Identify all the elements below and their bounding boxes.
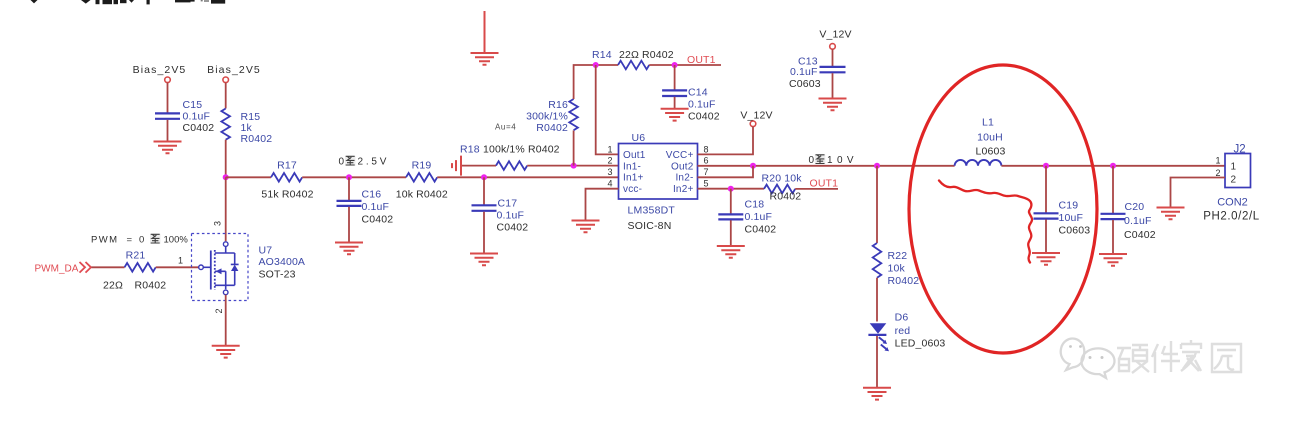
node 0-2.5V label (339, 156, 387, 168)
wire C18 to ground (730, 220, 732, 245)
wire bus to R22 (876, 166, 878, 243)
capacitor C20 (1101, 201, 1156, 241)
junction pin1 branch (593, 62, 599, 68)
svg-text:300k/1%: 300k/1% (526, 111, 568, 123)
wire gnd to R18 (462, 165, 496, 167)
svg-text:L1: L1 (982, 117, 994, 129)
ground J2 pin2 (1157, 208, 1185, 220)
wire node A to R17 (226, 176, 271, 178)
svg-text:1: 1 (1215, 156, 1220, 166)
svg-text:8: 8 (704, 144, 709, 154)
svg-text:C14: C14 (688, 87, 708, 99)
svg-text:C0402: C0402 (1124, 229, 1156, 241)
wire C17 node down (483, 177, 485, 204)
svg-text:2: 2 (1215, 168, 1220, 178)
svg-text:C19: C19 (1059, 200, 1079, 212)
svg-text:1: 1 (607, 144, 612, 154)
svg-text:7: 7 (704, 167, 709, 177)
wire R21 to U7 gate (156, 266, 199, 268)
capacitor C14 (662, 87, 720, 123)
resistor R16 (526, 99, 578, 134)
wire R20 to OUT1 (795, 188, 838, 190)
transistor U7 (AO3400A) (192, 234, 306, 301)
LED D6 (868, 312, 945, 352)
wire R22 to D6 (876, 278, 878, 322)
junction C17 node (481, 174, 487, 180)
ground under C14 (661, 109, 689, 121)
wire pin1 branch (596, 65, 619, 154)
svg-text:C16: C16 (362, 189, 382, 201)
svg-text:U7: U7 (259, 245, 273, 257)
wire L1 to J2 (1001, 165, 1225, 167)
ground under C13 (819, 99, 847, 111)
svg-text:R19: R19 (412, 160, 432, 172)
svg-text:R0402: R0402 (536, 122, 568, 134)
resistor R21 (103, 250, 166, 292)
svg-text:2 . 5 V: 2 . 5 V (358, 157, 387, 168)
capacitor C18 (718, 199, 776, 236)
wire U6 pin4 to ground (586, 189, 619, 220)
resistor R20 (762, 173, 803, 203)
junction C20 node (1110, 163, 1116, 169)
svg-text:D6: D6 (895, 312, 909, 324)
svg-text:10uH: 10uH (977, 132, 1003, 144)
wire C20 down (1112, 166, 1114, 213)
net label PWM_DA (35, 262, 92, 275)
op-amp U6 (LM358DT) (619, 132, 698, 232)
wire R18 to U6 pin2 (527, 165, 618, 167)
wire U7 source to ground (225, 295, 227, 346)
wire C19 down (1045, 166, 1047, 213)
svg-text:R0402: R0402 (135, 280, 167, 292)
junction C18 node (728, 186, 734, 192)
capacitor C16 (337, 189, 394, 226)
wire V_12V to C13 (832, 49, 834, 66)
svg-text:red: red (895, 325, 911, 337)
ground under C20 (1099, 254, 1127, 266)
svg-text:C17: C17 (498, 198, 518, 210)
resistor R15 (221, 109, 272, 146)
wire C14 down (674, 65, 676, 90)
svg-text:1: 1 (1231, 162, 1237, 173)
capacitor C19 (1034, 200, 1091, 237)
wire C16 node down (348, 177, 350, 200)
svg-text:OUT1: OUT1 (687, 54, 716, 66)
ground under C15 (154, 142, 182, 154)
svg-text:In2-: In2- (675, 173, 693, 184)
wire PWM_DA to R21 (92, 266, 125, 268)
ground top centre (471, 53, 499, 65)
junction C16 node (346, 174, 352, 180)
svg-text:LM358DT: LM358DT (628, 205, 676, 217)
svg-text:2: 2 (1231, 175, 1237, 186)
wire C17 to ground (483, 212, 485, 253)
svg-text:R21: R21 (126, 250, 146, 262)
svg-text:=: = (127, 235, 133, 246)
power port V_12V (C13) (819, 29, 851, 50)
ground sideways at R18 (452, 156, 461, 176)
wire R16 top to R14 line (574, 65, 618, 99)
svg-text:0.1uF: 0.1uF (497, 210, 525, 222)
wire pin6 to pin7 (698, 166, 754, 178)
wire top stub (484, 11, 486, 53)
watermark icon (1061, 339, 1115, 378)
svg-text:C15: C15 (183, 99, 203, 111)
svg-text:0: 0 (339, 157, 345, 168)
svg-text:0: 0 (809, 155, 815, 166)
svg-text:AO3400A: AO3400A (259, 256, 306, 268)
svg-text:6: 6 (704, 156, 709, 166)
capacitor C15 (155, 99, 214, 134)
svg-text:5: 5 (704, 178, 709, 188)
svg-text:R16: R16 (548, 99, 568, 111)
U6 pin numbers right (704, 144, 709, 188)
svg-text:2: 2 (214, 308, 224, 313)
svg-text:LED_0603: LED_0603 (895, 338, 946, 350)
svg-text:CON2: CON2 (1217, 197, 1248, 209)
svg-text:C0402: C0402 (183, 122, 215, 134)
resistor R17 (261, 160, 313, 201)
connector J2 (1203, 144, 1260, 223)
svg-text:R0402: R0402 (888, 275, 920, 287)
wire C15 to ground (167, 120, 169, 141)
junction R22 node (874, 163, 880, 169)
wire U6 pin5 (698, 188, 765, 190)
wire R14 to OUT1 (649, 64, 721, 66)
power port Bias_2V5 (right) (207, 64, 261, 83)
ground under U7 (212, 346, 240, 358)
svg-text:PH2.0/2/L: PH2.0/2/L (1203, 211, 1260, 223)
wire C13 to ground (832, 73, 834, 98)
capacitor C17 (472, 198, 529, 234)
wire R19 to U6 pin3 (437, 176, 618, 178)
svg-text:C18: C18 (745, 199, 765, 211)
svg-text:C20: C20 (1125, 201, 1145, 213)
svg-text:SOT-23: SOT-23 (259, 269, 296, 281)
wire V_12V to pin8 (698, 127, 754, 155)
svg-text:C0603: C0603 (789, 78, 821, 90)
ground under D6 (863, 388, 891, 400)
wire C14 to ground (674, 97, 676, 108)
junction C19 node (1043, 163, 1049, 169)
resistor R18 (460, 144, 560, 170)
J2 external pin numbers (1215, 156, 1220, 179)
junction C14 node (672, 62, 678, 68)
svg-text:3: 3 (607, 167, 612, 177)
power port V_12V (U6) (740, 110, 772, 127)
svg-text:100k/1% R0402: 100k/1% R0402 (483, 144, 560, 156)
svg-text:C0603: C0603 (1059, 225, 1091, 237)
svg-text:R0402: R0402 (241, 133, 273, 145)
svg-text:Bias_2V5: Bias_2V5 (133, 64, 187, 76)
svg-text:0.1uF: 0.1uF (362, 201, 390, 213)
svg-text:100%: 100% (164, 235, 189, 246)
svg-text:In1-: In1- (623, 161, 641, 172)
svg-text:4: 4 (607, 178, 612, 188)
svg-text:0.1uF: 0.1uF (1124, 215, 1152, 227)
svg-text:0.1uF: 0.1uF (688, 99, 716, 111)
svg-text:R17: R17 (277, 160, 297, 172)
svg-text:51k R0402: 51k R0402 (261, 189, 313, 201)
svg-text:C0402: C0402 (688, 111, 720, 123)
svg-text:R0402: R0402 (770, 191, 802, 203)
svg-text:Au=4: Au=4 (495, 123, 516, 132)
node 0-10V label (809, 154, 855, 166)
svg-text:V_12V: V_12V (819, 29, 851, 41)
label PWM = 0 to 100% (91, 234, 188, 246)
svg-text:Out1: Out1 (623, 150, 646, 161)
capacitor C13 (789, 56, 846, 91)
svg-text:0.1uF: 0.1uF (745, 211, 773, 223)
inductor L1 (955, 117, 1006, 166)
wire R16 bottom (573, 130, 575, 165)
wire Bias_2V5 to C15 (167, 83, 169, 113)
svg-text:vcc-: vcc- (623, 184, 642, 195)
svg-text:1: 1 (178, 256, 183, 266)
U6 pin numbers left (607, 144, 612, 188)
watermark text (1117, 340, 1241, 373)
annotation red squiggle (939, 181, 1032, 263)
power port Bias_2V5 (left) (133, 64, 187, 83)
svg-text:PWM: PWM (91, 235, 118, 246)
svg-text:OUT1: OUT1 (810, 178, 839, 190)
svg-text:R22: R22 (888, 250, 908, 262)
wire C16 to ground (348, 207, 350, 242)
svg-text:J2: J2 (1234, 144, 1246, 156)
ground U6 pin4 (572, 221, 600, 233)
ground under C16 (335, 243, 363, 255)
svg-text:V_12V: V_12V (740, 110, 772, 122)
svg-text:R14: R14 (592, 49, 612, 61)
svg-text:SOIC-8N: SOIC-8N (628, 220, 672, 232)
svg-text:PWM_DA: PWM_DA (35, 264, 79, 275)
svg-text:0.1uF: 0.1uF (790, 66, 818, 78)
wire C19 to ground (1045, 220, 1047, 253)
node A junction (R15/R17/U7 drain) (223, 174, 229, 180)
wire C20 to ground (1112, 220, 1114, 254)
svg-text:10uF: 10uF (1059, 212, 1084, 224)
svg-text:0: 0 (139, 235, 144, 246)
junction R16 bottom (571, 163, 577, 169)
svg-text:10k: 10k (888, 263, 906, 275)
svg-text:22Ω: 22Ω (103, 280, 123, 292)
svg-text:U6: U6 (632, 132, 646, 144)
svg-text:R20 10k: R20 10k (762, 173, 803, 185)
resistor R14 (592, 49, 674, 69)
wire U6 pin6 output bus (698, 165, 955, 167)
svg-text:C0402: C0402 (362, 214, 394, 226)
svg-text:R18: R18 (460, 144, 480, 156)
svg-text:22Ω R0402: 22Ω R0402 (619, 49, 674, 61)
svg-text:C0402: C0402 (745, 224, 777, 236)
wire R17 to C16 node (302, 176, 406, 178)
svg-text:0.1uF: 0.1uF (183, 111, 211, 123)
wire D6 to ground (876, 336, 878, 387)
ground under C18 (717, 246, 745, 258)
svg-text:Out2: Out2 (671, 161, 694, 172)
wire J2 pin2 to ground (1171, 178, 1226, 208)
ground under C17 (470, 254, 498, 266)
junction pin6 node (750, 163, 756, 169)
resistor R22 (873, 243, 920, 287)
svg-text:L0603: L0603 (976, 146, 1006, 158)
annotation red ellipse (909, 65, 1097, 353)
wire Bias_2V5 to R15 (225, 83, 227, 109)
svg-text:2: 2 (607, 156, 612, 166)
svg-text:10k R0402: 10k R0402 (396, 189, 448, 201)
svg-text:In2+: In2+ (673, 184, 694, 195)
wire R15 to node A (225, 140, 227, 178)
svg-text:1 0 V: 1 0 V (827, 155, 854, 166)
wire node A to U7 drain (225, 177, 227, 241)
ground under C19 (1032, 253, 1060, 265)
wire C18 down (730, 189, 732, 214)
svg-text:VCC+: VCC+ (666, 150, 694, 161)
svg-text:3: 3 (213, 221, 223, 226)
svg-text:C0402: C0402 (497, 222, 529, 234)
resistor R19 (396, 160, 448, 201)
svg-text:Bias_2V5: Bias_2V5 (207, 64, 261, 76)
cropped title text fragments (top edge) (31, 0, 226, 4)
svg-text:In1+: In1+ (623, 173, 644, 184)
